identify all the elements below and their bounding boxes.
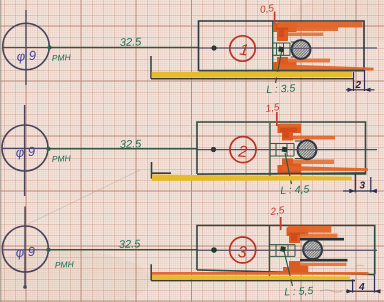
svg-text:L : 3.5: L : 3.5 <box>266 82 296 96</box>
ball R3 <box>303 240 322 259</box>
svg-text:32.5: 32.5 <box>120 138 143 151</box>
axis through box R2 <box>197 149 377 151</box>
leader 0,5 R1 <box>274 12 276 24</box>
spray top blob R2 <box>278 124 302 141</box>
spray bottom blob R2 <box>278 159 302 175</box>
ball R1 <box>292 40 311 59</box>
needle body R2 <box>269 123 271 178</box>
crosshair end dot R3 <box>23 285 27 289</box>
seat bar top R3 <box>300 238 344 241</box>
svg-text:4: 4 <box>358 282 365 293</box>
circled 3 <box>230 237 256 263</box>
pivot dot R1 <box>278 46 284 52</box>
axis through box R3 <box>197 249 377 251</box>
spray bottom blob R3 <box>283 261 308 273</box>
spray top blob R1 <box>274 23 297 42</box>
svg-text:0,5: 0,5 <box>259 3 275 16</box>
crosshair vertical R3 <box>24 207 26 289</box>
needle body R3 <box>269 226 271 277</box>
line 32.5 R1 <box>49 47 199 49</box>
svg-text:2: 2 <box>355 80 362 91</box>
base step R1 <box>151 56 354 79</box>
circled 2 <box>230 137 256 163</box>
svg-text:3: 3 <box>237 244 247 262</box>
svg-text:φ 9: φ 9 <box>15 144 35 160</box>
pivot dot R2 <box>282 147 288 153</box>
svg-text:L : 5,5: L : 5,5 <box>284 285 314 299</box>
axis inside circle R1 <box>2 47 49 49</box>
leader 1,5 R2 <box>276 112 278 126</box>
svg-text:φ 9: φ 9 <box>16 48 36 64</box>
green dot R3 <box>46 248 50 252</box>
line 32.5 R2 <box>48 148 197 150</box>
spray bottom blob R1 <box>274 57 297 71</box>
svg-text:L : 4,5: L : 4,5 <box>280 183 310 197</box>
leader L R1 <box>276 52 282 83</box>
circled 1 <box>230 36 255 61</box>
svg-text:φ 9: φ 9 <box>15 244 35 260</box>
body box R3 <box>197 226 375 275</box>
svg-text:2,5: 2,5 <box>269 205 286 218</box>
node dot R2 <box>211 147 216 152</box>
scan edge: faint left line <box>0 0 1 302</box>
svg-text:3: 3 <box>360 181 366 192</box>
svg-text:32.5: 32.5 <box>119 238 142 251</box>
svg-text:32.5: 32.5 <box>120 36 143 49</box>
dim 4 R3 <box>346 275 381 294</box>
node dot R1 <box>211 45 216 50</box>
body box R2 <box>197 122 366 174</box>
clevis R2 <box>270 144 294 157</box>
clevis R1 <box>273 43 290 55</box>
needle body R1 <box>272 22 274 71</box>
yellow rail R1 <box>152 72 353 78</box>
node dot R3 <box>211 247 217 253</box>
crosshair vertical R1 <box>25 10 27 85</box>
svg-text:PMH: PMH <box>55 259 75 270</box>
spray top blob R3 <box>287 227 309 243</box>
clevis R3 <box>270 245 296 257</box>
cam circle R2 <box>2 125 48 171</box>
dim 2 R1 <box>346 70 375 92</box>
base step R3 <box>151 264 355 280</box>
svg-text:1,5: 1,5 <box>265 102 281 115</box>
axis inside circle R2 <box>2 148 48 150</box>
axis inside circle R3 <box>2 249 48 251</box>
long orange bar R3 <box>152 272 369 275</box>
axis through box R1 <box>199 47 377 49</box>
green dot R1 <box>47 45 51 49</box>
pivot dot R3 <box>280 246 286 252</box>
leader L R2 <box>285 153 292 184</box>
line 32.5 R3 <box>48 249 197 251</box>
svg-text:PMH: PMH <box>52 153 72 164</box>
yellow rail R2 <box>152 175 352 182</box>
svg-text:2: 2 <box>237 143 248 161</box>
seat bar bottom R3 <box>300 259 348 262</box>
cam circle R1 <box>3 23 49 69</box>
faint crease line <box>28 170 140 224</box>
cam circle R3 <box>2 226 48 272</box>
body box R1 <box>199 21 365 71</box>
ball R2 <box>298 140 317 159</box>
dim 3 R2 <box>343 174 377 194</box>
yellow rail R3 <box>152 275 350 280</box>
leader L R3 <box>284 251 293 286</box>
leader 2,5 R3 <box>280 217 282 230</box>
base step R2 <box>151 162 171 179</box>
svg-text:PMH: PMH <box>52 52 72 63</box>
pencil smudge near L:5,5 <box>320 290 342 292</box>
crosshair vertical R2 <box>24 105 26 196</box>
green dot R2 <box>46 147 50 151</box>
